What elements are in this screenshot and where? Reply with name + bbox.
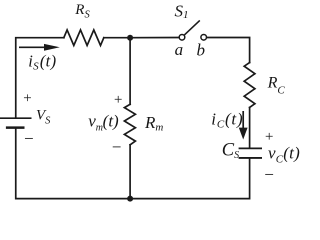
wire switch terminal b to top-right corner bbox=[207, 38, 250, 63]
resistor Rm bbox=[124, 104, 135, 145]
svg-text:−: − bbox=[263, 165, 274, 184]
wire middle branch node A to Rm bbox=[129, 38, 131, 105]
svg-text:+: + bbox=[22, 90, 32, 106]
current arrow iS(t) bbox=[19, 44, 60, 51]
svg-text:a: a bbox=[175, 40, 184, 59]
switch S1 terminal b bbox=[201, 35, 207, 41]
wire RS to node A bbox=[104, 37, 130, 39]
svg-text:iC(t): iC(t) bbox=[211, 109, 243, 130]
bottom wire (node B to source) bbox=[16, 128, 130, 199]
resistor RC bbox=[244, 63, 255, 108]
svg-text:vm(t): vm(t) bbox=[88, 111, 119, 133]
svg-text:−: − bbox=[23, 129, 34, 148]
capacitor CS bbox=[239, 148, 262, 158]
current arrow iC(t) bbox=[239, 111, 248, 140]
svg-text:iS(t): iS(t) bbox=[28, 51, 56, 72]
svg-text:Rm: Rm bbox=[144, 113, 163, 133]
wire top-left horizontal (source to RS) bbox=[16, 38, 64, 118]
svg-text:vC(t): vC(t) bbox=[268, 143, 300, 165]
svg-text:−: − bbox=[111, 137, 122, 156]
svg-text:b: b bbox=[197, 41, 206, 60]
voltage source VS (battery) bbox=[0, 118, 32, 127]
svg-text:VS: VS bbox=[36, 107, 51, 126]
switch S1 terminal a bbox=[179, 35, 185, 41]
svg-text:+: + bbox=[113, 92, 123, 108]
node A junction dot bbox=[127, 35, 133, 41]
wire RC to capacitor CS top plate bbox=[249, 108, 251, 148]
svg-text:S1: S1 bbox=[175, 2, 189, 22]
wire capacitor CS bottom plate to bottom-right corner bbox=[130, 159, 250, 199]
svg-text:RC: RC bbox=[267, 74, 286, 96]
switch S1 blade (open) bbox=[184, 20, 199, 35]
svg-text:+: + bbox=[264, 129, 274, 145]
node B junction dot bbox=[127, 196, 133, 202]
resistor RS bbox=[64, 30, 104, 46]
wire Rm to node B bbox=[129, 145, 131, 199]
svg-text:CS: CS bbox=[222, 141, 239, 161]
wire node A to switch terminal a bbox=[130, 37, 179, 39]
svg-text:RS: RS bbox=[74, 2, 90, 20]
